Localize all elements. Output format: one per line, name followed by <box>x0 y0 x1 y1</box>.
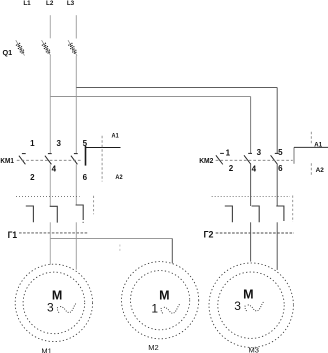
svg-text:KM2: KM2 <box>199 156 213 165</box>
svg-text:A1: A1 <box>112 132 119 139</box>
svg-text:L1: L1 <box>23 0 31 7</box>
svg-text:Г1: Г1 <box>8 230 18 240</box>
svg-text:М3: М3 <box>248 345 258 353</box>
svg-text:Q1: Q1 <box>3 48 13 57</box>
svg-text:A2: A2 <box>115 174 122 181</box>
svg-text:2: 2 <box>229 164 234 173</box>
svg-text:1: 1 <box>151 301 158 315</box>
svg-text:2: 2 <box>30 173 35 182</box>
svg-text:KM1: KM1 <box>0 156 14 165</box>
svg-text:4: 4 <box>252 165 257 174</box>
svg-text:3: 3 <box>47 301 54 315</box>
svg-text:Г2: Г2 <box>204 230 214 240</box>
svg-text:1: 1 <box>226 149 231 158</box>
svg-text:3: 3 <box>257 148 262 157</box>
svg-text:M: M <box>159 288 169 302</box>
svg-text:1: 1 <box>30 139 35 148</box>
svg-text:M: M <box>243 288 253 302</box>
svg-text:L2: L2 <box>46 0 54 7</box>
svg-text:6: 6 <box>83 173 88 182</box>
svg-text:М2: М2 <box>148 343 158 352</box>
svg-text:L3: L3 <box>67 0 75 7</box>
svg-text:6: 6 <box>278 164 283 173</box>
svg-text:3: 3 <box>56 139 61 148</box>
svg-text:М1: М1 <box>41 346 51 353</box>
svg-text:4: 4 <box>52 165 57 174</box>
svg-text:3: 3 <box>234 299 241 313</box>
svg-text:5: 5 <box>278 148 283 157</box>
svg-text:A2: A2 <box>316 167 325 174</box>
svg-text:A1: A1 <box>314 141 322 148</box>
